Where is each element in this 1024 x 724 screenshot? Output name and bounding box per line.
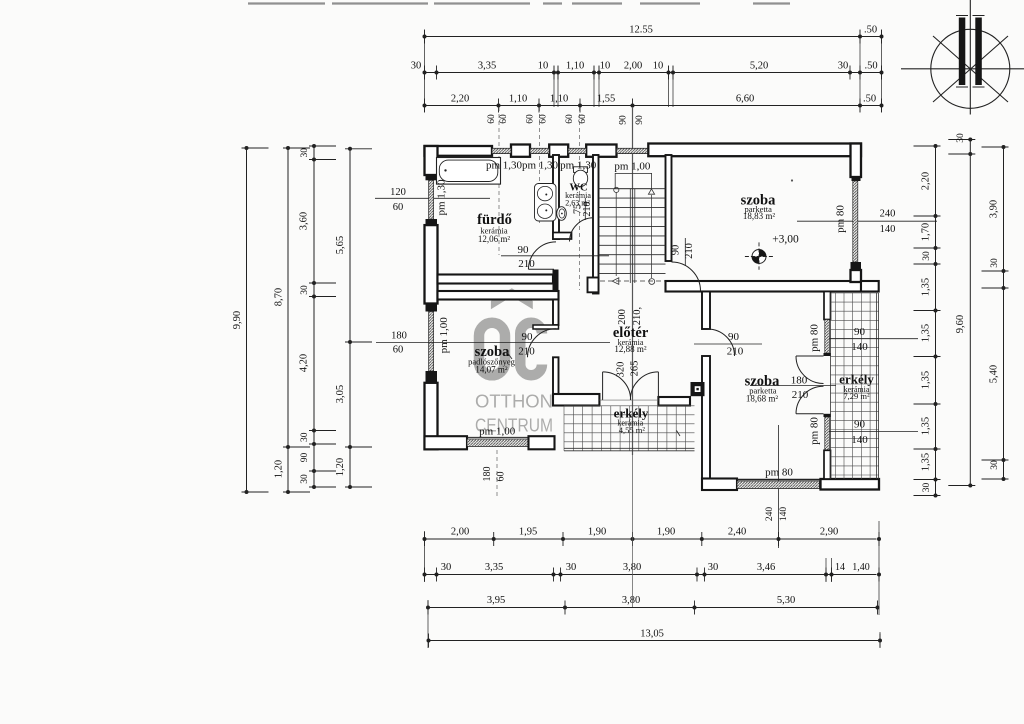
north symbol bar end ticks bbox=[956, 15, 968, 17]
staircase direction triangle top bbox=[648, 189, 654, 194]
svg-text:1,90: 1,90 bbox=[588, 527, 606, 538]
svg-text:1,70: 1,70 bbox=[921, 223, 932, 241]
balcony double door upper leaf (180/210) bbox=[796, 355, 824, 357]
chimney symbol black box bbox=[691, 382, 705, 396]
svg-text:210: 210 bbox=[518, 258, 535, 270]
scan artifact broken line top edge bbox=[248, 2, 325, 4]
svg-text:3,35: 3,35 bbox=[478, 61, 496, 72]
szoba(bottom-right) east wall top piece bbox=[824, 292, 831, 320]
szoba(bottom-left) door jamb stub bbox=[533, 325, 559, 329]
left dim line L4 (5,65/3,05/1,20) bbox=[349, 149, 351, 487]
tiny speck bbox=[791, 179, 793, 181]
svg-text:.50: .50 bbox=[864, 25, 877, 36]
stair east / top szoba west wall bbox=[666, 155, 672, 261]
leader line stair axis long center bbox=[632, 107, 634, 455]
svg-text:30: 30 bbox=[922, 483, 932, 493]
svg-text:pm 1,30: pm 1,30 bbox=[560, 160, 597, 172]
svg-text:320: 320 bbox=[615, 362, 626, 378]
svg-text:13,05: 13,05 bbox=[640, 629, 664, 640]
svg-text:1,35: 1,35 bbox=[921, 371, 932, 389]
svg-text:2,00: 2,00 bbox=[451, 527, 469, 538]
svg-text:10: 10 bbox=[653, 61, 664, 72]
svg-text:30: 30 bbox=[708, 562, 719, 573]
svg-text:210: 210 bbox=[727, 346, 744, 358]
erkely(right) south cap bbox=[821, 479, 880, 490]
svg-text:3,46: 3,46 bbox=[757, 562, 775, 573]
wc hand basin bbox=[557, 207, 567, 221]
west wall jamb black above szoba window bbox=[426, 304, 438, 312]
top wall pier 3 (wide, at wc/stair) bbox=[586, 145, 616, 157]
wc east / stair west wall bbox=[593, 155, 599, 294]
svg-text:pm 1,00: pm 1,00 bbox=[614, 160, 651, 172]
svg-text:10: 10 bbox=[538, 61, 549, 72]
svg-text:210,: 210, bbox=[632, 307, 643, 325]
svg-text:140: 140 bbox=[880, 224, 896, 235]
szoba(bottom-left) door arc (90/210) bbox=[528, 329, 557, 358]
svg-text:90: 90 bbox=[619, 115, 629, 125]
svg-text:120: 120 bbox=[390, 187, 406, 198]
svg-text:240: 240 bbox=[765, 507, 775, 522]
svg-text:90: 90 bbox=[518, 244, 530, 256]
right dim line R2 (30 / 9,60) bbox=[969, 140, 971, 486]
staircase treads bbox=[599, 188, 666, 190]
svg-text:7,29 m²: 7,29 m² bbox=[843, 391, 870, 401]
dimension line bottom row B (30/3.35/30/3.80/30/3.46/14/1.40) bbox=[425, 574, 877, 576]
svg-text:pm 1,00: pm 1,00 bbox=[438, 317, 450, 354]
eloter east / szoba(bottom-right) west wall upper bbox=[702, 292, 710, 330]
svg-text:1,10: 1,10 bbox=[509, 94, 527, 105]
svg-text:1,35: 1,35 bbox=[921, 417, 932, 435]
west wall window 120/60 (pm 1,30 rotated) bbox=[429, 180, 434, 219]
eloter french door left leaf bbox=[602, 372, 604, 400]
top wall pier 1 bbox=[511, 145, 530, 157]
svg-text:4,55 m²: 4,55 m² bbox=[619, 425, 646, 435]
szoba(bottom-left) south window pm 1,00 bbox=[467, 439, 529, 446]
svg-text:18,68 m²: 18,68 m² bbox=[746, 394, 779, 404]
left dim line L1 (9,90) bbox=[246, 148, 248, 492]
twin basins console in furdo bbox=[535, 184, 557, 222]
top wall window w4 (pm 1,00 stair) bbox=[617, 148, 649, 153]
north symbol diagonal SW-NE bbox=[933, 36, 1008, 102]
svg-text:1,10: 1,10 bbox=[550, 94, 568, 105]
svg-text:10: 10 bbox=[600, 61, 611, 72]
svg-text:2,40: 2,40 bbox=[728, 527, 746, 538]
svg-text:.50: .50 bbox=[864, 61, 877, 72]
svg-text:200: 200 bbox=[617, 309, 628, 325]
north symbol horizontal axis bbox=[901, 68, 1024, 70]
svg-text:4,20: 4,20 bbox=[299, 354, 310, 372]
svg-text:1,40: 1,40 bbox=[852, 562, 870, 573]
szoba(bottom-left) east wall lower bbox=[553, 357, 559, 396]
szoba(bottom-right) door arc (90/210) bbox=[708, 329, 735, 356]
svg-text:3,80: 3,80 bbox=[623, 562, 641, 573]
szoba(bottom-left) north wall bbox=[438, 291, 559, 300]
north symbol thick bar left bbox=[959, 18, 966, 86]
svg-text:60: 60 bbox=[499, 114, 509, 124]
watermark letter C bbox=[520, 323, 542, 376]
east wall jamb black below window bbox=[851, 262, 862, 270]
erkely right tile grid bbox=[831, 293, 879, 479]
witness verticals of top dimension chains bbox=[424, 30, 426, 112]
exterior west wall upper corner block bbox=[425, 146, 438, 175]
svg-text:5,65: 5,65 bbox=[335, 236, 346, 254]
top wall window w1 (pm 1,30) bbox=[492, 148, 511, 153]
svg-text:60: 60 bbox=[487, 114, 497, 124]
top szoba east wall upper bbox=[851, 144, 862, 178]
svg-text:14: 14 bbox=[835, 562, 845, 573]
witness verticals bottom chains bbox=[424, 531, 426, 582]
east wall block below window bbox=[851, 270, 862, 282]
svg-text:9,90: 9,90 bbox=[232, 311, 243, 329]
svg-text:30: 30 bbox=[990, 460, 1000, 470]
tiny mark in center erkely bbox=[677, 431, 681, 437]
svg-text:30: 30 bbox=[300, 285, 310, 295]
svg-text:1,10: 1,10 bbox=[566, 61, 584, 72]
svg-text:12,88 m²: 12,88 m² bbox=[614, 344, 647, 354]
dimension line bottom row D (13.05) bbox=[429, 640, 881, 642]
svg-text:1,95: 1,95 bbox=[519, 527, 537, 538]
right dim line R3 (3,90/30/5,40/30) bbox=[1003, 147, 1005, 479]
top szoba south wall bbox=[666, 281, 862, 292]
west wall middle segment bbox=[425, 225, 438, 303]
svg-text:90: 90 bbox=[522, 331, 534, 343]
svg-text:+3,00: +3,00 bbox=[772, 234, 799, 246]
svg-text:.50: .50 bbox=[863, 94, 876, 105]
svg-text:1,20: 1,20 bbox=[274, 460, 285, 478]
right dim line R1 (2,20/1,70/30/1,35 x4/30) bbox=[935, 146, 937, 496]
watermark OC logo roof chevron bbox=[491, 288, 533, 309]
wc west wall bbox=[553, 155, 559, 239]
svg-text:12,06 m²: 12,06 m² bbox=[478, 234, 511, 244]
furdo south wall bbox=[438, 275, 554, 284]
svg-text:1,55: 1,55 bbox=[597, 94, 615, 105]
leader line window w3 center (wc axis) bbox=[579, 107, 581, 290]
szoba(bottom-right) east wall bottom piece bbox=[824, 450, 831, 479]
bathtub bbox=[437, 158, 501, 185]
svg-text:6,60: 6,60 bbox=[736, 94, 754, 105]
svg-text:180: 180 bbox=[391, 331, 407, 342]
svg-text:90: 90 bbox=[635, 115, 645, 125]
svg-text:60: 60 bbox=[496, 472, 507, 482]
east window 90/140 upper (pm 80) bbox=[825, 320, 830, 354]
north symbol vertical axis bbox=[969, 0, 971, 115]
svg-text:2,90: 2,90 bbox=[820, 527, 838, 538]
west wall window jamb black bottom bbox=[426, 219, 438, 225]
svg-text:2,63 m²: 2,63 m² bbox=[565, 199, 590, 208]
leader line window w1 center bbox=[498, 107, 500, 255]
svg-text:30: 30 bbox=[441, 562, 452, 573]
svg-text:3,95: 3,95 bbox=[487, 595, 505, 606]
svg-text:140: 140 bbox=[851, 341, 868, 353]
svg-text:60: 60 bbox=[526, 114, 536, 124]
dimension line top row 1 (12.55 / .50) bbox=[425, 36, 882, 38]
svg-text:60: 60 bbox=[393, 345, 404, 356]
staircase direction line down-flight bbox=[615, 192, 617, 276]
svg-text:5,20: 5,20 bbox=[750, 61, 768, 72]
svg-text:30: 30 bbox=[411, 61, 422, 72]
staircase direction circle bottom bbox=[649, 279, 655, 285]
szoba(bottom-left) south wall east block bbox=[529, 436, 555, 449]
eloter south wall west segment bbox=[553, 394, 599, 406]
svg-text:140: 140 bbox=[851, 434, 868, 446]
west wall jamb black below szoba window bbox=[426, 371, 438, 383]
svg-text:3,35: 3,35 bbox=[485, 562, 503, 573]
dimension line bottom row A (2.00/1.95/1.90/1.90/2.40/2.90) bbox=[425, 538, 877, 540]
leader line window w2 center bbox=[539, 107, 541, 225]
svg-text:2,00: 2,00 bbox=[624, 61, 642, 72]
exterior top wall segment east (szoba) bbox=[648, 144, 861, 157]
svg-text:60: 60 bbox=[393, 202, 404, 213]
wc south wall bbox=[553, 233, 572, 240]
svg-text:2,20: 2,20 bbox=[921, 172, 932, 190]
svg-text:pm 1,00: pm 1,00 bbox=[479, 426, 516, 438]
svg-text:3,05: 3,05 bbox=[335, 385, 346, 403]
svg-text:14,07 m²: 14,07 m² bbox=[475, 364, 508, 374]
top wall window w2 (pm 1,30) bbox=[530, 148, 549, 153]
svg-text:2,20: 2,20 bbox=[451, 94, 469, 105]
staircase direction line up-flight bbox=[651, 195, 653, 278]
svg-text:pm 80: pm 80 bbox=[765, 467, 793, 479]
svg-text:60: 60 bbox=[539, 114, 549, 124]
svg-text:pm 80: pm 80 bbox=[809, 324, 821, 352]
top wall window w3 (pm 1,30 wc) bbox=[568, 148, 586, 153]
balcony double door lower leaf bbox=[796, 413, 824, 415]
svg-text:18,83 m²: 18,83 m² bbox=[743, 211, 776, 221]
east wall window 240/140 (pm 80) bbox=[853, 181, 858, 262]
north symbol circle bbox=[931, 29, 1010, 108]
svg-text:30: 30 bbox=[566, 562, 577, 573]
svg-text:pm 1,30: pm 1,30 bbox=[486, 160, 523, 172]
furdo door leaf and arc (90/210) bbox=[528, 268, 554, 270]
svg-text:90: 90 bbox=[671, 245, 682, 256]
wc door arc (75/210) bbox=[570, 218, 594, 242]
szoba(bottom-left) south wall west block bbox=[425, 436, 468, 449]
svg-text:30: 30 bbox=[990, 258, 1000, 268]
north symbol thick bar right bbox=[975, 18, 982, 86]
west wall window 180/60 (pm 1,00 rotated) bbox=[429, 312, 434, 372]
svg-text:1,35: 1,35 bbox=[921, 278, 932, 296]
svg-text:1,35: 1,35 bbox=[921, 324, 932, 342]
svg-text:60: 60 bbox=[565, 114, 575, 124]
erkely(right) north cap bbox=[861, 281, 879, 292]
erkely center tile grid bbox=[564, 406, 695, 451]
svg-text:30: 30 bbox=[300, 474, 310, 484]
svg-text:240: 240 bbox=[880, 209, 896, 220]
svg-text:90: 90 bbox=[728, 331, 740, 343]
svg-text:210: 210 bbox=[792, 389, 809, 401]
svg-text:1,90: 1,90 bbox=[657, 527, 675, 538]
svg-text:pm 1,30: pm 1,30 bbox=[435, 179, 447, 216]
svg-text:5,30: 5,30 bbox=[777, 595, 795, 606]
dimension line bottom row C (3.95/3.80/5.30) bbox=[428, 607, 878, 609]
stair west wall boot bbox=[588, 278, 599, 293]
svg-text:30: 30 bbox=[922, 251, 932, 261]
top wall pier 2 bbox=[549, 145, 568, 157]
svg-text:210: 210 bbox=[518, 346, 535, 358]
east wall window jamb black top bbox=[852, 177, 861, 181]
svg-text:180: 180 bbox=[791, 375, 808, 387]
west wall lower segment bbox=[425, 383, 438, 450]
west wall window jamb black top (furdo window) bbox=[426, 175, 438, 180]
svg-text:3,90: 3,90 bbox=[989, 200, 1000, 218]
svg-text:90: 90 bbox=[854, 419, 866, 431]
svg-text:30: 30 bbox=[838, 61, 849, 72]
eloter french door right leaf bbox=[657, 372, 659, 400]
svg-text:5,40: 5,40 bbox=[989, 365, 1000, 383]
left dim line L3 (30/3,60/30/4,20/30/90/30) bbox=[313, 146, 315, 487]
eloter south wall east segment bbox=[658, 397, 690, 406]
left dim line L2 (8,70 / 1,20) bbox=[287, 148, 289, 492]
staircase stringer double line bbox=[629, 189, 631, 283]
svg-text:12.55: 12.55 bbox=[629, 25, 653, 36]
top szoba door arc (90/210) bbox=[672, 262, 701, 291]
furdo door jamb block bbox=[553, 270, 559, 300]
jamb black above balcony door bbox=[824, 353, 832, 356]
svg-text:30: 30 bbox=[300, 432, 310, 442]
svg-text:8,70: 8,70 bbox=[274, 288, 285, 306]
north symbol diagonal NW-SE bbox=[933, 36, 1008, 102]
svg-text:3,80: 3,80 bbox=[622, 595, 640, 606]
svg-text:265: 265 bbox=[630, 361, 641, 377]
svg-text:OTTHON: OTTHON bbox=[475, 391, 553, 412]
svg-text:180: 180 bbox=[482, 467, 493, 482]
svg-text:30: 30 bbox=[956, 133, 966, 143]
staircase upper landing outline bbox=[615, 173, 651, 188]
svg-text:3,60: 3,60 bbox=[299, 212, 310, 230]
dimension line top row 3 (2.20/1.10/1.10/1.55/6.60/.50) bbox=[425, 105, 882, 107]
threshold line across french door opening bbox=[599, 399, 658, 401]
staircase direction circle top bbox=[614, 187, 619, 192]
jamb black below balcony door bbox=[824, 414, 832, 417]
svg-text:pm 80: pm 80 bbox=[835, 205, 847, 233]
svg-text:pm 80: pm 80 bbox=[809, 417, 821, 445]
svg-text:pm 1,30: pm 1,30 bbox=[522, 160, 559, 172]
svg-text:90: 90 bbox=[854, 326, 866, 338]
exterior top wall segment west (furdo) bbox=[425, 146, 493, 156]
wc toilet bbox=[574, 167, 588, 173]
svg-text:90: 90 bbox=[300, 453, 310, 463]
szoba(bottom-right) south window pm 80 bbox=[737, 481, 820, 489]
svg-text:1,20: 1,20 bbox=[335, 458, 346, 476]
svg-text:30: 30 bbox=[300, 148, 310, 158]
szoba(bottom-left) east wall upper bbox=[553, 300, 559, 326]
szoba(bottom-right) west wall lower bbox=[702, 356, 710, 479]
east window 90/140 lower (pm 80) bbox=[825, 417, 830, 450]
level marker +3,00 quartered circle bbox=[752, 250, 766, 264]
watermark letter O bbox=[479, 323, 505, 376]
svg-text:9,60: 9,60 bbox=[955, 315, 966, 333]
szoba(bottom-right) south wall corner block bbox=[702, 479, 737, 491]
dimension line top row 2 (30/3.35/10/1.10/10/2.00/10/5.20/30/.50) bbox=[425, 72, 882, 74]
leader line bottom window 180/60 bbox=[496, 450, 498, 497]
staircase direction arrow bottom bbox=[612, 278, 619, 285]
svg-text:140: 140 bbox=[779, 507, 789, 522]
svg-text:1,35: 1,35 bbox=[921, 453, 932, 471]
